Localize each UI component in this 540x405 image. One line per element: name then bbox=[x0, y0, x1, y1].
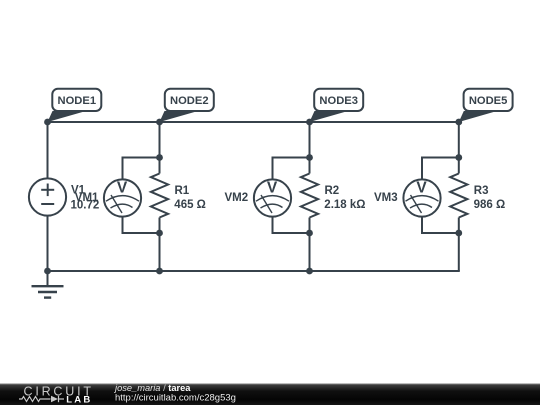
node dot NODE2 bbox=[156, 119, 163, 126]
wire R1 bottom lead bbox=[159, 218, 161, 272]
node flag NODE5 bbox=[459, 89, 513, 122]
ground bbox=[32, 286, 64, 297]
wire R1 top lead bbox=[159, 122, 161, 174]
wire VM3 bottom stub bbox=[422, 217, 459, 234]
voltmeter VM2 bbox=[254, 179, 291, 216]
wire R2 bottom lead bbox=[309, 218, 311, 272]
junction VM3 bottom bbox=[455, 230, 462, 237]
svg-text:2.18 kΩ: 2.18 kΩ bbox=[324, 199, 365, 211]
wire VM1 top stub bbox=[123, 158, 160, 181]
voltage source V1 bbox=[29, 178, 66, 215]
node flag NODE2 bbox=[160, 89, 214, 122]
junction V1/ground bbox=[44, 268, 51, 275]
junction VM1 top bbox=[156, 154, 163, 161]
svg-text:VM1: VM1 bbox=[75, 192, 99, 204]
resistor R2 bbox=[301, 174, 318, 218]
wire bottom bus (ground net) bbox=[48, 270, 460, 272]
resistor R3 bbox=[450, 174, 467, 218]
junction VM3 top bbox=[455, 154, 462, 161]
footer bar bbox=[0, 384, 540, 405]
voltmeter VM3 bbox=[403, 179, 440, 216]
wire VM2 top stub bbox=[273, 158, 310, 181]
svg-text:NODE1: NODE1 bbox=[58, 95, 97, 107]
wire V1 bottom lead bbox=[47, 216, 49, 272]
wire ground stub bbox=[47, 271, 49, 286]
svg-text:V: V bbox=[117, 180, 128, 197]
svg-text:http://circuitlab.com/c28g53g: http://circuitlab.com/c28g53g bbox=[115, 393, 236, 404]
node flag NODE1 bbox=[48, 89, 102, 122]
svg-text:NODE5: NODE5 bbox=[469, 95, 508, 107]
wire top bus NODE1-NODE5 bbox=[48, 121, 459, 123]
junction VM2 bottom bbox=[306, 230, 313, 237]
wire VM3 top stub bbox=[422, 158, 459, 181]
svg-text:VM3: VM3 bbox=[374, 192, 398, 204]
node dot NODE5 bbox=[455, 119, 462, 126]
svg-text:VM2: VM2 bbox=[225, 192, 249, 204]
label R2 2.18 kohm bbox=[324, 185, 365, 211]
svg-text:LAB: LAB bbox=[66, 395, 92, 405]
svg-text:NODE2: NODE2 bbox=[170, 95, 209, 107]
resistor R1 bbox=[151, 174, 168, 218]
wire V1 top lead bbox=[47, 122, 49, 179]
svg-text:986 Ω: 986 Ω bbox=[474, 199, 506, 211]
junction R1 bottom bus bbox=[156, 268, 163, 275]
svg-text:R2: R2 bbox=[325, 185, 340, 197]
svg-text:465 Ω: 465 Ω bbox=[174, 199, 206, 211]
wire VM2 bottom stub bbox=[273, 217, 310, 234]
wire VM1 bottom stub bbox=[123, 217, 160, 234]
junction R2 bottom bus bbox=[306, 268, 313, 275]
svg-text:jose_maria / tarea: jose_maria / tarea bbox=[113, 383, 191, 393]
svg-text:NODE3: NODE3 bbox=[319, 95, 358, 107]
voltmeter VM1 bbox=[104, 179, 141, 216]
svg-text:R1: R1 bbox=[175, 185, 190, 197]
label R1 465 ohm bbox=[174, 185, 206, 211]
node dot NODE3 bbox=[306, 119, 313, 126]
svg-text:V: V bbox=[416, 180, 427, 197]
label V1 value 10.72 bbox=[71, 185, 100, 212]
wire R3 top lead bbox=[458, 122, 460, 174]
wire R2 top lead bbox=[309, 122, 311, 174]
node flag NODE3 bbox=[310, 89, 364, 122]
junction VM2 top bbox=[306, 154, 313, 161]
svg-text:V: V bbox=[267, 180, 278, 197]
node dot NODE1 bbox=[44, 119, 51, 126]
junction VM1 bottom bbox=[156, 230, 163, 237]
svg-text:R3: R3 bbox=[474, 185, 489, 197]
label R3 986 ohm bbox=[474, 185, 506, 211]
logo wire resistor diode bbox=[19, 396, 64, 402]
wire R3 bottom lead bbox=[458, 218, 460, 272]
logo diode triangle bbox=[51, 396, 58, 402]
